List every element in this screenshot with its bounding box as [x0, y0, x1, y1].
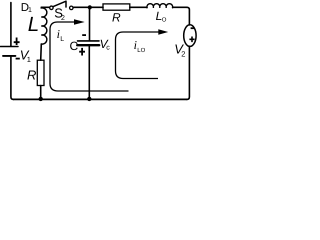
svg-text:R: R [27, 68, 36, 83]
svg-text:1: 1 [27, 55, 31, 64]
svg-text:O: O [162, 16, 167, 23]
svg-text:L: L [60, 36, 64, 43]
svg-text:2: 2 [181, 50, 185, 59]
svg-text:c: c [106, 45, 110, 52]
svg-text:C: C [70, 39, 79, 53]
svg-text:R: R [112, 11, 121, 25]
svg-text:i: i [57, 27, 60, 41]
svg-text:2: 2 [61, 15, 65, 22]
svg-text:L: L [28, 13, 39, 36]
svg-text:LO: LO [137, 47, 145, 54]
svg-text:i: i [134, 38, 137, 52]
